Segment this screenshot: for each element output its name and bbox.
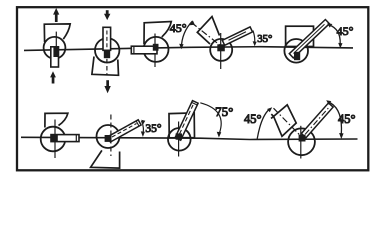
T4 35 deg arc arrow bottom <box>253 41 257 46</box>
T5 45 deg arc arrow top <box>327 23 332 27</box>
T2 piston rectangle <box>103 27 111 50</box>
B2 35 deg arc arrow top <box>141 120 145 124</box>
figure B3: square block, cylinder at 75 deg <box>168 101 233 157</box>
B2 35 deg arc arrow bottom <box>141 131 145 137</box>
T2 down arrow (top) <box>104 10 110 20</box>
svg-text:45°: 45° <box>337 24 354 38</box>
T4 dash-dot axis <box>192 23 222 46</box>
T4 piston inner line <box>229 32 247 41</box>
B4 left 45 deg arc arrow <box>267 107 272 112</box>
T5 square block <box>286 26 314 46</box>
figure T1: vertical cylinder, piston down <box>44 8 71 84</box>
T4 vertical centerline <box>220 33 222 69</box>
T3 vertical centerline <box>154 34 156 68</box>
T1 piston rectangle <box>51 47 59 67</box>
B3 vertical centerline <box>178 122 180 157</box>
T3 crank circle <box>144 37 169 62</box>
B4 right 45 deg arc <box>328 102 342 134</box>
T1 up arrow (top) <box>53 8 59 22</box>
T4 tilted block <box>197 17 219 44</box>
B3 75 deg arc <box>200 103 221 134</box>
T3 piston end cap <box>133 46 135 53</box>
B1 crank pin <box>51 135 58 142</box>
T5 45 deg arc arrow bottom <box>338 43 342 49</box>
B4 left 45 deg arc <box>257 110 269 139</box>
B4 right piston rectangle <box>301 103 333 138</box>
B2 piston inner dashes <box>112 124 137 138</box>
T5 crank pin <box>294 52 300 60</box>
B2 piston end cap <box>136 121 139 126</box>
T1 crank pin <box>53 46 58 57</box>
figure B4: V arrangement, block at 135 deg, piston at 45 deg <box>244 100 356 158</box>
T5 piston centerline <box>294 24 325 53</box>
svg-text:75°: 75° <box>215 104 233 119</box>
B1 crank circle <box>41 127 66 152</box>
B2 35 deg arc <box>142 121 144 133</box>
bottom row axis line <box>21 137 358 139</box>
T4 35 deg arc <box>253 31 255 43</box>
B2 crank pin <box>105 135 112 142</box>
B1 piston rectangle <box>51 135 79 142</box>
T1 crank circle <box>44 37 66 59</box>
T4 45 deg arc arrow top <box>190 20 195 25</box>
B4 right 45 deg arc arrow top <box>326 100 331 105</box>
T2 down arrow (bottom) <box>104 80 110 93</box>
B2 block (below) <box>91 150 120 168</box>
svg-text:45°: 45° <box>244 112 262 126</box>
outer frame <box>17 7 368 170</box>
top row axis line <box>24 47 353 51</box>
T3 piston rectangle <box>131 46 157 54</box>
B3 piston rectangle <box>175 101 198 141</box>
T2 dashed cylinder centerline <box>106 31 108 75</box>
T2 piston inner dashes <box>106 31 108 49</box>
B2 crank circle <box>97 125 120 148</box>
figure T5: square block, piston at 45 deg <box>284 20 353 63</box>
B4 left dash-dot axis <box>274 108 302 137</box>
T2 crank pin <box>104 50 110 59</box>
B4 crank circle <box>288 128 315 155</box>
T5 45 deg arc <box>328 25 340 44</box>
B1 block <box>45 113 68 127</box>
svg-text:45°: 45° <box>338 112 356 126</box>
B3 crank pin <box>176 133 182 139</box>
T5 crank circle <box>284 39 308 63</box>
figure T2: vertical cylinder, piston up <box>92 10 120 93</box>
B3 piston end cap <box>192 103 197 105</box>
B1 piston end cap <box>75 135 77 142</box>
T4 piston rectangle <box>222 27 252 45</box>
figure T3: horizontal cylinder pointing left <box>131 22 171 68</box>
T4 crank circle <box>210 39 232 61</box>
T1 block <box>44 24 70 42</box>
T5 piston rectangle <box>289 20 329 58</box>
B3 square block <box>169 113 195 138</box>
B3 crank circle <box>168 128 191 151</box>
figure B2: cylinder at 35 deg, block below <box>91 115 162 169</box>
B4 right 45 deg arc arrow bottom <box>339 133 344 139</box>
B4 vertical centerline <box>300 126 302 159</box>
figure T4: tilted block 135 deg with piston at 35 deg <box>170 17 273 69</box>
svg-text:35°: 35° <box>145 123 162 135</box>
svg-text:35°: 35° <box>257 33 272 45</box>
T4 45 deg arc <box>181 21 192 48</box>
svg-text:45°: 45° <box>170 21 187 35</box>
B4 right piston dash-dot axis <box>305 108 328 134</box>
B2 dashed vertical centerline <box>110 115 112 157</box>
B3 piston inner dashes <box>180 105 194 134</box>
T1 up arrow (bottom) <box>50 71 56 83</box>
T3 crank pin <box>153 44 159 51</box>
B3 75 deg arc arrow bottom <box>217 132 222 138</box>
T3 block <box>144 22 171 45</box>
B4 crank pin <box>299 135 306 142</box>
T4 45 deg arc arrow bottom <box>179 44 183 50</box>
B2 piston rectangle <box>108 120 142 142</box>
figure B1: horizontal cylinder pointing right <box>41 113 79 158</box>
T2 crank circle <box>95 38 119 62</box>
B1 vertical centerline <box>54 120 56 159</box>
T1 vertical centerline <box>55 32 57 47</box>
B4 left tilted block <box>271 105 296 137</box>
T4 crank pin <box>217 44 225 51</box>
T2 block (below) <box>92 57 119 76</box>
